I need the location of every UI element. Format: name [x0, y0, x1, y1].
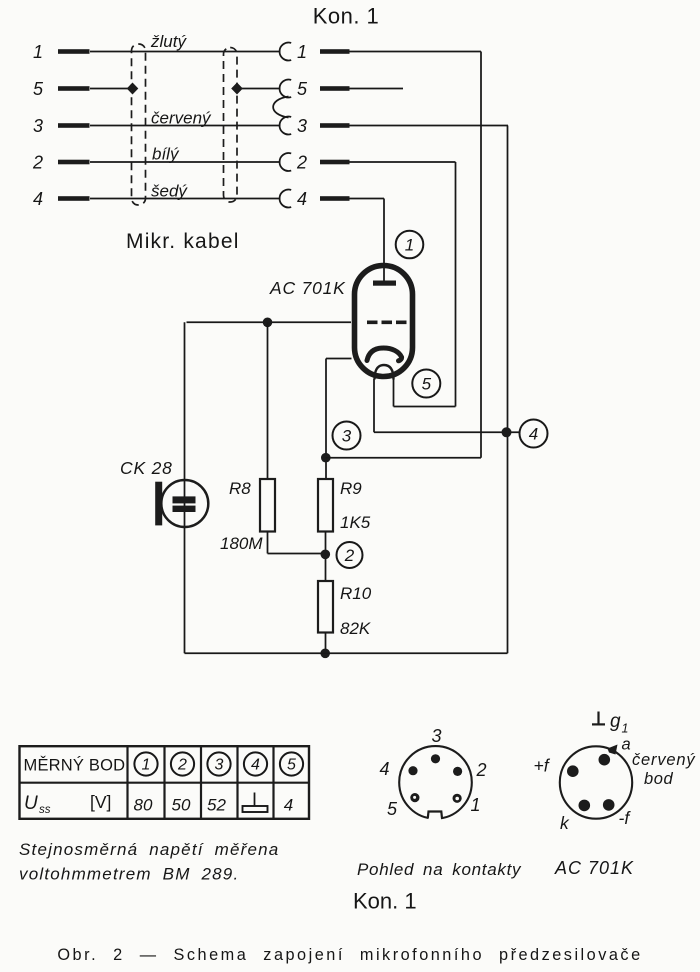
- svg-text:CK 28: CK 28: [120, 458, 173, 478]
- svg-text:2: 2: [475, 760, 486, 780]
- svg-text:1: 1: [622, 722, 629, 736]
- svg-text:5: 5: [287, 757, 296, 774]
- svg-text:1: 1: [33, 42, 43, 62]
- svg-text:1: 1: [405, 236, 414, 255]
- svg-text:Kon. 1: Kon. 1: [313, 4, 380, 29]
- svg-text:4: 4: [379, 759, 389, 779]
- svg-text:g: g: [610, 711, 621, 732]
- svg-text:2: 2: [344, 546, 355, 565]
- svg-text:Pohled na kontakty: Pohled na kontakty: [357, 860, 522, 879]
- svg-text:180M: 180M: [220, 534, 263, 553]
- svg-text:50: 50: [172, 796, 191, 815]
- svg-text:82K: 82K: [340, 619, 371, 638]
- svg-text:5: 5: [297, 79, 308, 99]
- svg-text:R10: R10: [340, 584, 372, 603]
- svg-text:1: 1: [297, 42, 307, 62]
- svg-text:MĚRNÝ BOD: MĚRNÝ BOD: [24, 756, 126, 775]
- svg-text:+f: +f: [534, 756, 551, 776]
- svg-text:4: 4: [33, 189, 43, 209]
- svg-text:AC 701K: AC 701K: [554, 858, 634, 878]
- svg-text:3: 3: [215, 757, 224, 774]
- svg-text:R9: R9: [340, 479, 362, 498]
- svg-text:a: a: [622, 736, 631, 754]
- svg-text:4: 4: [529, 425, 538, 444]
- svg-text:bílý: bílý: [152, 145, 180, 164]
- svg-text:3: 3: [431, 726, 441, 746]
- svg-text:5: 5: [422, 375, 432, 394]
- svg-text:bod: bod: [644, 770, 674, 788]
- svg-text:4: 4: [251, 757, 260, 774]
- svg-text:R8: R8: [229, 479, 251, 498]
- svg-text:2: 2: [32, 153, 43, 173]
- svg-text:šedý: šedý: [151, 182, 188, 201]
- svg-text:ss: ss: [39, 804, 51, 816]
- svg-text:4: 4: [284, 796, 293, 815]
- svg-text:4: 4: [297, 189, 307, 209]
- svg-text:červený: červený: [151, 109, 212, 128]
- svg-text:žlutý: žlutý: [150, 32, 187, 51]
- svg-text:3: 3: [297, 116, 307, 136]
- svg-text:3: 3: [33, 116, 43, 136]
- svg-text:Obr. 2 — Schema zapojení mik: Obr. 2 — Schema zapojení mikrofonního př…: [57, 946, 642, 964]
- svg-text:5: 5: [387, 799, 398, 819]
- svg-text:80: 80: [134, 796, 153, 815]
- svg-text:[V]: [V]: [90, 792, 111, 812]
- svg-text:3: 3: [342, 427, 352, 446]
- svg-text:1: 1: [142, 757, 151, 774]
- svg-text:1K5: 1K5: [340, 513, 371, 532]
- svg-text:U: U: [24, 793, 38, 814]
- svg-text:voltohmmetrem BM 289.: voltohmmetrem BM 289.: [19, 865, 239, 884]
- svg-text:k: k: [560, 813, 570, 833]
- svg-text:Stejnosměrná napětí měřena: Stejnosměrná napětí měřena: [19, 840, 279, 859]
- svg-text:Kon. 1: Kon. 1: [353, 889, 417, 914]
- svg-text:1: 1: [470, 795, 480, 815]
- svg-text:červený: červený: [632, 751, 696, 769]
- svg-text:2: 2: [296, 153, 307, 173]
- svg-text:5: 5: [33, 79, 44, 99]
- svg-text:Mikr. kabel: Mikr. kabel: [126, 230, 240, 253]
- svg-text:AC 701K: AC 701K: [269, 278, 346, 298]
- svg-text:52: 52: [207, 796, 226, 815]
- svg-text:2: 2: [177, 757, 187, 774]
